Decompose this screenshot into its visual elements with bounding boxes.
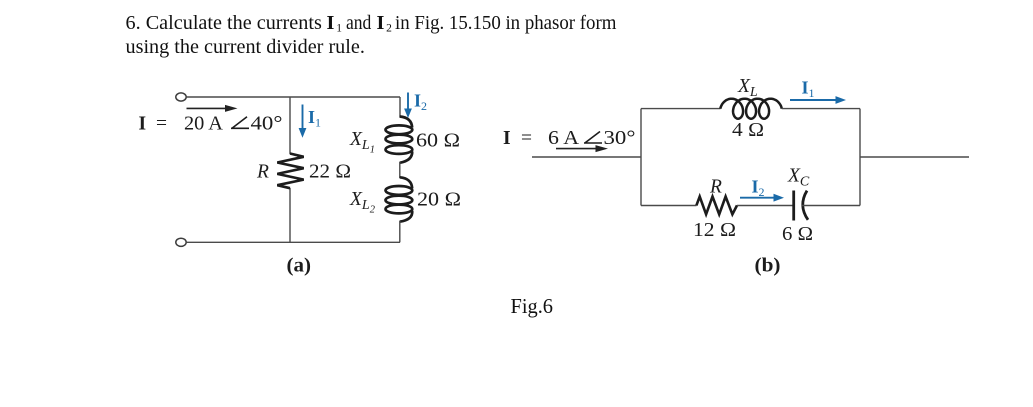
angle symbol (a) <box>231 117 249 129</box>
inductor XL1 coil (a) <box>386 117 413 163</box>
wire middle branch (a) <box>289 97 291 242</box>
svg-text:R: R <box>709 177 722 198</box>
wire entry (b) <box>532 156 641 158</box>
wire top-left (b) <box>641 108 721 110</box>
wire bottom-left (b) <box>641 205 697 207</box>
current source arrow (a) <box>187 105 238 112</box>
wire bottom-mid (b) <box>737 205 793 207</box>
resistor R (a) <box>277 154 303 189</box>
svg-text:I: I <box>503 128 511 149</box>
wire top-right (b) <box>782 108 860 110</box>
wire right branch bottom (a) <box>399 221 401 242</box>
resistor R (b) <box>696 197 737 215</box>
current I1 arrow (a) <box>299 105 307 138</box>
source arrow (b) <box>556 145 608 152</box>
wire top (a) <box>186 96 400 98</box>
terminal top-left <box>176 93 186 101</box>
svg-text:40°: 40° <box>251 114 283 135</box>
wire left vertical (b) <box>640 109 642 206</box>
terminal bottom-left <box>176 238 186 246</box>
svg-text:=: = <box>156 114 167 135</box>
svg-text:20 A: 20 A <box>184 114 223 135</box>
wire bottom-right (b) <box>802 205 861 207</box>
svg-text:30°: 30° <box>604 128 636 149</box>
svg-text:4 Ω: 4 Ω <box>732 120 764 141</box>
svg-text:6. Calculate the currents: 6. Calculate the currents <box>126 12 322 34</box>
svg-text:in Fig. 15.150 in phasor form: in Fig. 15.150 in phasor form <box>395 12 617 34</box>
wire exit (b) <box>860 156 969 158</box>
svg-text:I: I <box>327 12 335 34</box>
capacitor XC left plate <box>792 191 795 221</box>
svg-text:and: and <box>346 12 371 34</box>
current I2 arrow (b) <box>740 194 784 202</box>
current I1 arrow (b) <box>790 96 846 104</box>
wire between coils (a) <box>399 162 401 178</box>
angle symbol (b) <box>584 132 602 144</box>
wire bottom (a) <box>186 241 400 243</box>
wire right vertical (b) <box>859 109 861 206</box>
inductor XL2 coil (a) <box>386 177 413 221</box>
svg-text:using the current divider rule: using the current divider rule. <box>126 36 365 58</box>
source label I = 6 A angle 30deg <box>503 128 636 149</box>
svg-text:20 Ω: 20 Ω <box>417 190 461 211</box>
svg-text:=: = <box>521 128 532 149</box>
svg-text:12 Ω: 12 Ω <box>693 220 736 241</box>
svg-text:(b): (b) <box>755 256 781 277</box>
svg-text:6 A: 6 A <box>548 128 579 149</box>
svg-text:6 Ω: 6 Ω <box>782 224 813 245</box>
svg-text:I: I <box>377 12 385 34</box>
current I2 arrow (a) <box>404 93 412 119</box>
svg-text:R: R <box>256 162 269 183</box>
svg-text:60 Ω: 60 Ω <box>416 131 460 152</box>
svg-text:22 Ω: 22 Ω <box>309 162 351 183</box>
svg-text:(a): (a) <box>287 256 312 277</box>
wire right branch top (a) <box>399 97 401 118</box>
svg-text:I: I <box>139 114 147 135</box>
svg-text:1: 1 <box>336 23 342 35</box>
source label I = 20 A angle 40deg <box>139 114 283 135</box>
capacitor XC right plate (curved) <box>803 191 808 220</box>
inductor XL coil (b) <box>720 99 782 119</box>
svg-text:2: 2 <box>386 23 392 35</box>
svg-text:Fig.6: Fig.6 <box>511 294 554 318</box>
problem statement text <box>126 12 617 58</box>
